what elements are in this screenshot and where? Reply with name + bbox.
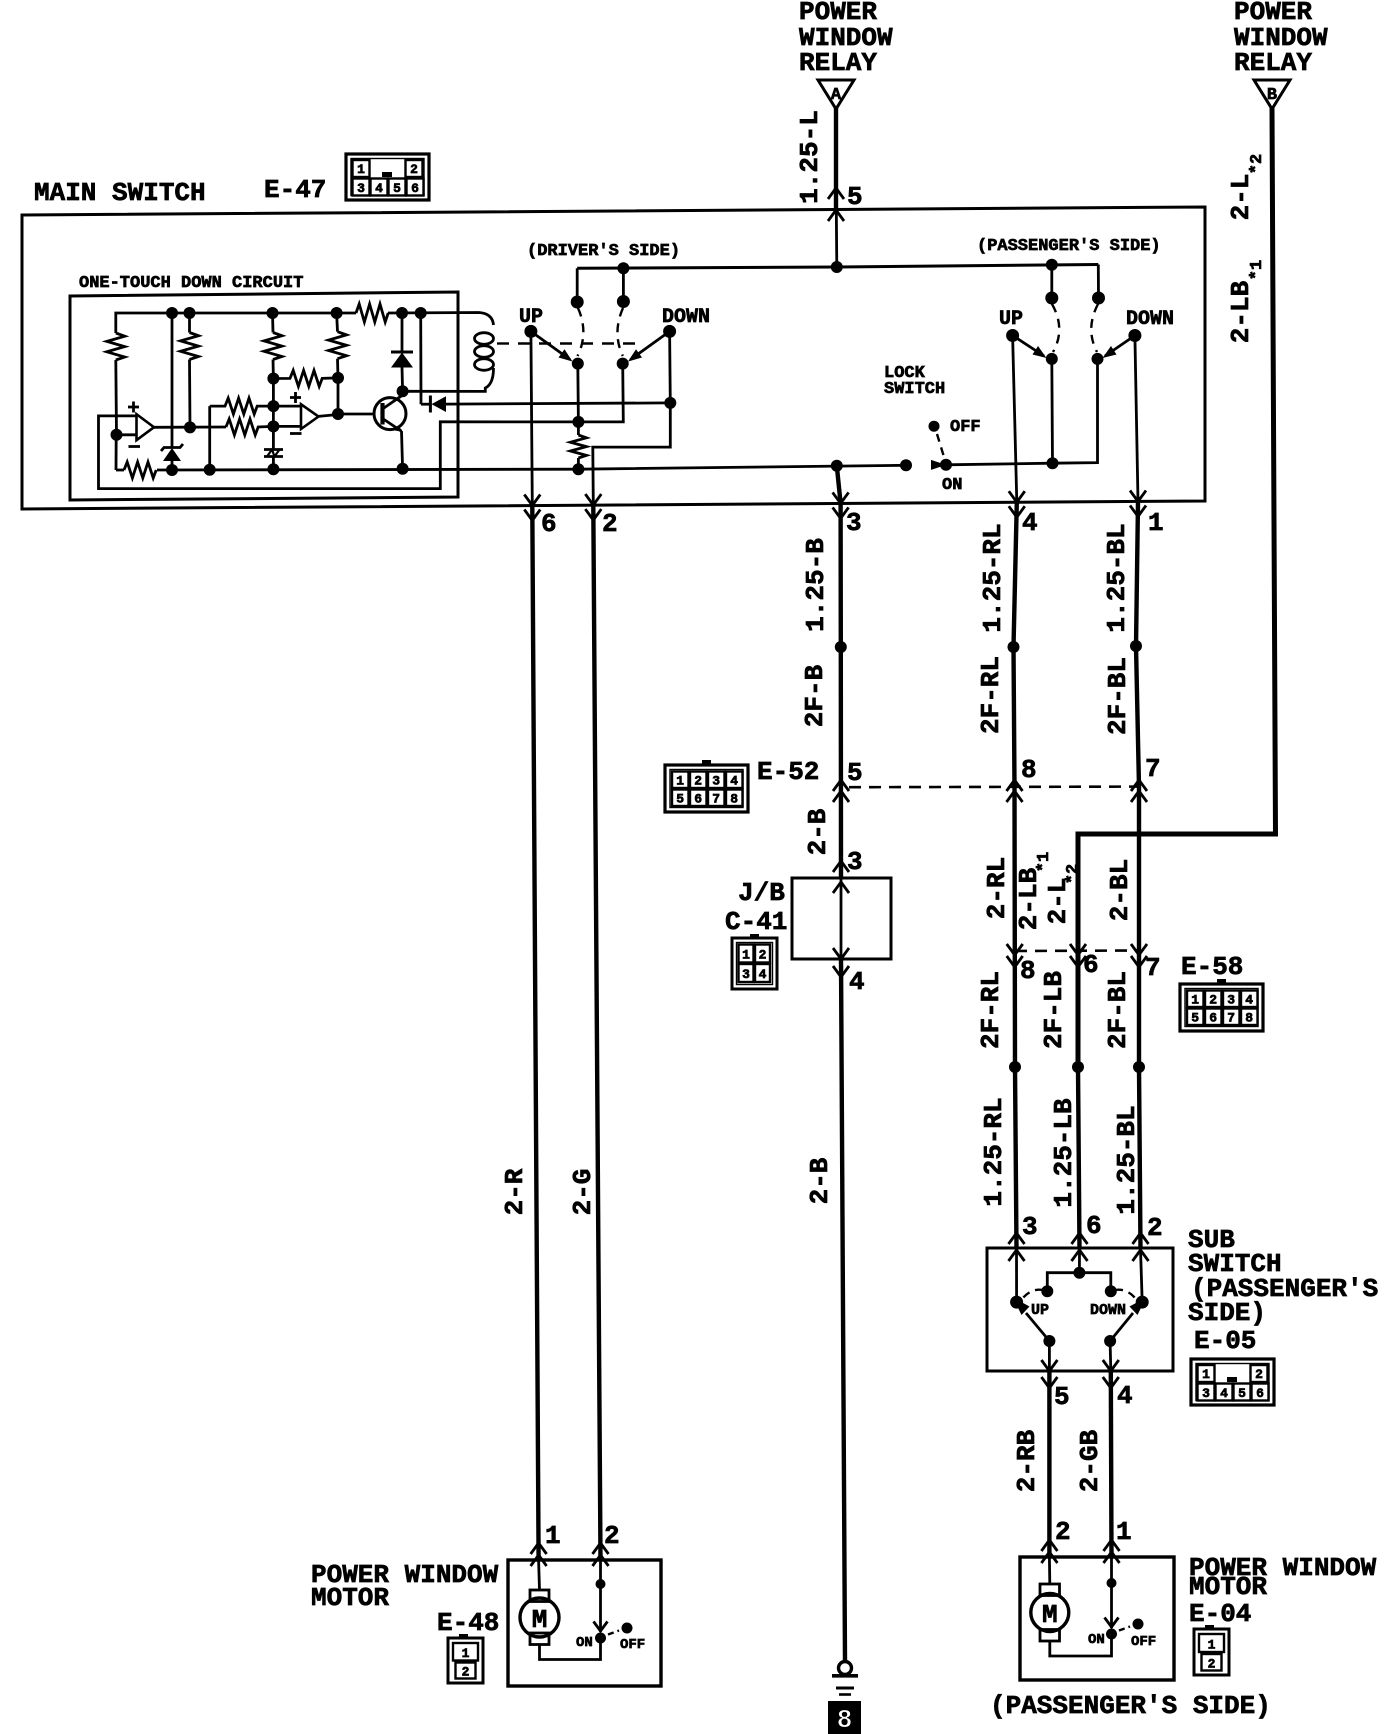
node D2 top rail xyxy=(415,307,427,319)
svg-text:E-04: E-04 xyxy=(1189,1599,1251,1629)
switch blade passenger DOWN xyxy=(1103,336,1135,359)
svg-text:1: 1 xyxy=(676,774,684,789)
resistor R9 xyxy=(124,462,156,478)
wire Q1 emitter to bottom rail xyxy=(402,431,403,469)
mechanical dashed arc driver DOWN xyxy=(617,308,623,356)
junction block J/B box xyxy=(792,878,891,959)
node breaker OFF contact (driver) xyxy=(622,1623,633,1634)
node passenger feed T xyxy=(1046,259,1058,271)
wire driver UP throw drop xyxy=(576,268,579,302)
pin 6 arrows at main switch xyxy=(524,495,540,521)
svg-text:6: 6 xyxy=(1256,1386,1264,1401)
node breaker OFF contact (passenger) xyxy=(1133,1619,1144,1630)
svg-text:2F-LB: 2F-LB xyxy=(1039,971,1069,1049)
svg-text:OFF: OFF xyxy=(950,418,981,437)
wire D2 node to pin 2 xyxy=(593,403,671,505)
svg-text:1: 1 xyxy=(462,1646,470,1661)
node driver feed xyxy=(617,262,629,274)
svg-text:2: 2 xyxy=(462,1665,470,1680)
node driver feedback junction xyxy=(572,416,584,428)
node common T xyxy=(1073,1267,1085,1279)
svg-text:3: 3 xyxy=(1202,1386,1210,1401)
svg-text:2: 2 xyxy=(694,774,702,789)
pin 1 arrows at main switch xyxy=(1130,491,1146,517)
svg-text:A: A xyxy=(831,86,842,105)
wire pin 2 to DOWN pivot xyxy=(1141,1249,1143,1302)
relay connector triangle B xyxy=(1254,80,1290,109)
svg-text:RELAY: RELAY xyxy=(799,48,877,78)
node R4 R5 junction xyxy=(332,372,344,384)
connector arrow at pin 5 xyxy=(828,188,844,199)
node lock line passenger junction xyxy=(1047,457,1059,469)
wire pin 1 from DOWN pivot xyxy=(1135,336,1138,502)
zener Z1 xyxy=(161,313,183,470)
svg-text:1: 1 xyxy=(1116,1517,1132,1547)
resistor R3 xyxy=(264,313,282,379)
pin 2 arrows at main switch xyxy=(585,494,601,520)
svg-text:C-41: C-41 xyxy=(725,907,787,937)
svg-text:2: 2 xyxy=(1055,1517,1071,1547)
node R6 leg bottom xyxy=(204,464,216,476)
svg-text:3: 3 xyxy=(847,847,863,877)
node splice 2F-B xyxy=(835,641,847,653)
wire U2 inputs xyxy=(273,406,301,426)
connector E-52 pin 5 arrows xyxy=(833,780,849,802)
svg-text:1: 1 xyxy=(742,948,750,963)
svg-text:E-47: E-47 xyxy=(264,175,326,205)
svg-text:4: 4 xyxy=(1022,508,1038,538)
svg-text:2-RB: 2-RB xyxy=(1012,1429,1042,1492)
wire 2-GB to passenger motor xyxy=(1109,1371,1114,1557)
svg-text:1: 1 xyxy=(1191,993,1199,1008)
wire pin2 to breaker top xyxy=(599,1560,602,1584)
sub switch pin 4 arrows xyxy=(1103,1360,1119,1388)
wire minus node to bottom rail xyxy=(115,435,118,470)
wire 2-B to ground xyxy=(841,959,845,1661)
wire passenger DOWN throw drop xyxy=(1097,265,1100,299)
connector icon E-05 xyxy=(1191,1359,1274,1405)
svg-text:4: 4 xyxy=(759,967,767,982)
switch blade passenger UP xyxy=(1013,336,1047,359)
wire motor bottom to breaker (passenger) xyxy=(1050,1634,1112,1656)
transistor Q1 xyxy=(374,396,406,432)
node passenger UP throw contact xyxy=(1045,292,1058,305)
svg-text:2F-B: 2F-B xyxy=(800,664,830,727)
wire pin 6 from UP pivot xyxy=(531,331,532,505)
node splice 2F-RL xyxy=(1008,641,1020,653)
svg-text:2-B: 2-B xyxy=(805,1157,835,1204)
node op-amp U1 minus input xyxy=(111,429,123,441)
breaker OFF dash (passenger) xyxy=(1119,1627,1130,1631)
wire U2 output to Q1 base xyxy=(317,415,338,417)
passenger motor pin 2 arrows xyxy=(1041,1540,1057,1563)
svg-text:1.25-RL: 1.25-RL xyxy=(978,523,1008,632)
svg-text:2: 2 xyxy=(1209,993,1217,1008)
driver motor pin 2 arrows xyxy=(593,1543,609,1566)
mechanical dashed arc passenger UP xyxy=(1052,304,1059,352)
wire R6 left leg to bottom rail xyxy=(208,406,211,470)
node passenger DOWN output contact xyxy=(1092,353,1104,365)
wire 1.25-RL down from pin 4 xyxy=(1014,502,1017,1249)
passenger motor pin 1 arrows xyxy=(1104,1540,1120,1563)
svg-text:OFF: OFF xyxy=(620,1637,645,1653)
mechanical dashed arc sub UP xyxy=(1022,1290,1043,1299)
svg-text:4: 4 xyxy=(1220,1386,1228,1401)
svg-text:2-RL: 2-RL xyxy=(982,857,1012,919)
wire 2-L/2-LB from relay B down xyxy=(1078,108,1276,1069)
svg-text:E-52: E-52 xyxy=(757,757,819,787)
connector icon E-58 xyxy=(1180,979,1263,1031)
svg-text:*2: *2 xyxy=(1064,864,1083,884)
svg-text:8: 8 xyxy=(837,1705,853,1734)
svg-text:4: 4 xyxy=(1245,993,1253,1008)
svg-text:1.25-LB: 1.25-LB xyxy=(1049,1098,1079,1208)
svg-text:2-B: 2-B xyxy=(803,808,833,855)
svg-text:6: 6 xyxy=(1086,1211,1102,1241)
svg-text:ON: ON xyxy=(576,1635,593,1651)
sub switch pin 3 arrows xyxy=(1009,1233,1025,1261)
node pin3 tap xyxy=(831,460,843,472)
node sub UP pivot xyxy=(1010,1296,1023,1309)
node R4 top rail xyxy=(331,307,343,319)
breaker OFF dash (driver) xyxy=(608,1631,619,1635)
svg-text:2: 2 xyxy=(410,162,418,177)
node R2 top rail xyxy=(184,307,196,319)
wire U1 minus input xyxy=(117,433,138,436)
svg-text:1.25-RL: 1.25-RL xyxy=(979,1097,1009,1206)
node common left contact xyxy=(1041,1285,1053,1297)
wire 1.25-LB to sub switch xyxy=(1078,1067,1080,1249)
node passenger DOWN throw contact xyxy=(1092,292,1105,305)
node lock switch left xyxy=(900,459,912,471)
wire sub DOWN output to pin 4 xyxy=(1109,1341,1113,1371)
svg-text:(PASSENGER'S SIDE): (PASSENGER'S SIDE) xyxy=(990,1691,1271,1721)
svg-text:5: 5 xyxy=(1238,1386,1246,1401)
node splice 2F-BL xyxy=(1130,640,1142,652)
wire U1 output xyxy=(153,426,226,429)
driver motor pin 1 arrows xyxy=(531,1543,547,1566)
wire 1.25-BL down from pin 1 xyxy=(1136,502,1141,1250)
svg-text:7: 7 xyxy=(1227,1011,1235,1026)
wire sub UP output to pin 5 xyxy=(1048,1341,1051,1371)
resistor R4 xyxy=(329,313,347,378)
passenger motor box xyxy=(1020,1557,1174,1680)
svg-text:2: 2 xyxy=(1147,1213,1163,1243)
mechanical dashed arc driver UP xyxy=(578,308,584,356)
wire 1.25-L from relay A xyxy=(834,108,838,209)
J/B pin 3 arrows xyxy=(833,861,849,893)
resistor R7 xyxy=(226,419,273,435)
svg-text:5: 5 xyxy=(847,758,863,788)
svg-text:2: 2 xyxy=(602,509,618,539)
wire pin1 to breaker top (passenger) xyxy=(1110,1557,1113,1583)
svg-text:6: 6 xyxy=(541,509,557,539)
connector E-58 dashed line xyxy=(1015,949,1139,952)
sub switch pin 5 arrows xyxy=(1041,1360,1057,1388)
svg-text:*1: *1 xyxy=(1248,260,1267,280)
svg-text:E-05: E-05 xyxy=(1194,1326,1256,1356)
svg-text:5: 5 xyxy=(1054,1382,1070,1412)
wire passenger UP contact to lock line xyxy=(1050,359,1053,463)
motor M2 (passenger) xyxy=(1031,1584,1069,1641)
wire pin5 to driver feed xyxy=(835,209,838,267)
node driver DOWN pivot xyxy=(663,325,676,338)
switch blade sub DOWN xyxy=(1110,1298,1146,1342)
wire R4 node to U2 output xyxy=(337,378,340,414)
node U2 plus input xyxy=(267,400,279,412)
mechanical dashed link coil to switch xyxy=(497,342,644,344)
pin 3 arrows at main switch xyxy=(833,492,849,518)
svg-text:2-BL: 2-BL xyxy=(1105,859,1135,921)
node passenger UP output contact xyxy=(1046,353,1058,365)
svg-text:7: 7 xyxy=(1145,754,1161,784)
svg-text:7: 7 xyxy=(1145,953,1161,983)
svg-text:OFF: OFF xyxy=(1131,1634,1156,1650)
svg-text:6: 6 xyxy=(1209,1011,1217,1026)
node D2 line to DOWN throw xyxy=(664,397,676,409)
svg-text:E-58: E-58 xyxy=(1181,952,1243,982)
svg-text:2-GB: 2-GB xyxy=(1075,1429,1105,1492)
circuit breaker blade (passenger) xyxy=(1105,1583,1119,1628)
wire U1 plus input feedback loop xyxy=(99,416,579,489)
svg-text:*1: *1 xyxy=(1035,852,1054,872)
svg-text:2: 2 xyxy=(604,1521,620,1551)
svg-text:ON: ON xyxy=(1088,1632,1105,1648)
sub switch pin 6 arrows xyxy=(1072,1233,1088,1261)
svg-text:2-LB: 2-LB xyxy=(1226,280,1256,343)
wire through J/B xyxy=(840,878,843,959)
coil L1 bottom return to collector node xyxy=(403,368,494,391)
svg-text:3: 3 xyxy=(357,181,365,196)
node passenger DOWN pivot xyxy=(1128,329,1141,342)
wire pin1 to motor xyxy=(537,1560,541,1590)
svg-text:5: 5 xyxy=(676,792,684,807)
svg-text:2: 2 xyxy=(759,948,767,963)
wire 1.25-B down from pin 3 xyxy=(838,503,843,878)
coil L1 loops xyxy=(475,333,494,371)
label POWER WINDOW RELAY (A) xyxy=(799,0,893,78)
node driver UP throw contact xyxy=(571,296,584,309)
svg-text:*2: *2 xyxy=(1248,154,1267,174)
svg-text:ON: ON xyxy=(942,476,962,495)
svg-text:RELAY: RELAY xyxy=(1234,48,1312,78)
svg-text:3: 3 xyxy=(1022,1212,1038,1242)
diode D1 xyxy=(391,313,413,391)
svg-text:E-48: E-48 xyxy=(437,1608,499,1638)
wire D2 anode to driver DOWN contact xyxy=(446,403,670,404)
svg-text:1: 1 xyxy=(1202,1367,1210,1382)
svg-text:5: 5 xyxy=(847,182,863,212)
svg-text:8: 8 xyxy=(1245,1011,1253,1026)
J/B pin 4 arrows xyxy=(833,948,849,977)
switch blade driver UP xyxy=(531,331,573,361)
svg-text:MAIN SWITCH: MAIN SWITCH xyxy=(34,178,206,208)
wire common bar xyxy=(1047,1273,1111,1292)
svg-text:7: 7 xyxy=(712,792,720,807)
lock switch blade arrow xyxy=(931,460,946,470)
svg-text:UP: UP xyxy=(1031,1302,1049,1319)
connector icon E-48 xyxy=(448,1634,483,1683)
node sub DOWN output xyxy=(1104,1335,1116,1347)
motor M1 (driver) xyxy=(520,1590,559,1645)
node splice 1.25-RL xyxy=(1009,1061,1021,1073)
wire R3 node to U2 plus node xyxy=(272,379,275,407)
connector icon E-47 xyxy=(346,154,429,200)
wire 2-G to driver motor xyxy=(593,505,600,1560)
node splice 1.25-LB xyxy=(1072,1061,1084,1073)
node D1 top rail xyxy=(396,307,408,319)
node R3 top rail xyxy=(267,307,279,319)
svg-text:3: 3 xyxy=(846,508,862,538)
node driver UP output contact xyxy=(572,358,584,370)
mechanical dashed arc passenger DOWN xyxy=(1091,304,1098,352)
switch blade sub UP xyxy=(1013,1298,1049,1342)
wire driver DOWN contact to feedback node xyxy=(578,364,623,422)
svg-text:M: M xyxy=(1042,1600,1058,1630)
svg-text:6: 6 xyxy=(694,792,702,807)
main switch box outline xyxy=(22,207,1205,509)
wire bottom rail xyxy=(157,465,906,470)
svg-text:1.25-L: 1.25-L xyxy=(795,110,825,204)
svg-text:3: 3 xyxy=(742,967,750,982)
resistor R5 xyxy=(273,370,338,386)
svg-text:2-G: 2-G xyxy=(568,1169,598,1216)
sub switch box xyxy=(987,1248,1173,1371)
node driver UP pivot xyxy=(524,325,537,338)
svg-text:SWITCH: SWITCH xyxy=(884,380,945,399)
resistor R1 xyxy=(107,333,125,435)
wire lock switch to passenger common xyxy=(946,359,1098,465)
wire top rail xyxy=(116,313,356,333)
node lock switch OFF contact xyxy=(929,421,940,432)
svg-text:5: 5 xyxy=(1191,1011,1199,1026)
connector arrow at pin 5 inside xyxy=(828,210,844,221)
node sub UP output xyxy=(1043,1335,1055,1347)
svg-text:4: 4 xyxy=(375,181,383,196)
node lock switch ON contact xyxy=(940,459,952,471)
node U2 minus input xyxy=(267,420,279,432)
resistor R8 xyxy=(356,304,388,322)
node sub DOWN pivot xyxy=(1136,1296,1149,1309)
svg-text:1: 1 xyxy=(1208,1638,1216,1653)
op-amp U1 xyxy=(128,402,154,447)
wire feed line from relay A node xyxy=(577,265,1098,269)
svg-text:MOTOR: MOTOR xyxy=(311,1583,389,1613)
node passenger UP pivot xyxy=(1006,329,1019,342)
svg-text:B: B xyxy=(1267,86,1277,105)
svg-text:1: 1 xyxy=(357,162,365,177)
op-amp U2 xyxy=(290,392,319,434)
connector icon E-04 xyxy=(1194,1625,1229,1675)
diode D2 xyxy=(421,313,446,413)
driver motor box xyxy=(508,1560,661,1686)
connector E-58 pin 6 arrows xyxy=(1070,944,1086,967)
svg-text:2-L: 2-L xyxy=(1226,174,1256,221)
wire pin 3 to UP pivot xyxy=(1015,1249,1018,1302)
switch blade driver DOWN xyxy=(628,331,670,361)
svg-text:8: 8 xyxy=(1021,755,1037,785)
svg-text:2: 2 xyxy=(1255,1367,1263,1382)
connector icon E-52 xyxy=(665,760,748,812)
node driver DOWN output contact xyxy=(617,358,629,370)
wire top rail right xyxy=(388,313,494,326)
svg-text:2-R: 2-R xyxy=(500,1168,530,1215)
resistor R10 xyxy=(570,422,586,469)
connector E-58 pin 8 arrows xyxy=(1007,944,1023,967)
svg-text:M: M xyxy=(532,1605,548,1635)
svg-text:1.25-BL: 1.25-BL xyxy=(1112,1105,1142,1214)
node Q1 emitter bottom xyxy=(397,463,409,475)
svg-text:3: 3 xyxy=(712,774,720,789)
node common right contact xyxy=(1105,1285,1117,1297)
pin 4 arrows at main switch xyxy=(1009,491,1025,517)
svg-text:2F-RL: 2F-RL xyxy=(976,971,1006,1049)
relay connector triangle A xyxy=(818,80,854,109)
node splice 1.25-BL xyxy=(1133,1061,1145,1073)
svg-text:6: 6 xyxy=(411,181,419,196)
label POWER WINDOW RELAY (B) xyxy=(1234,0,1328,78)
wire passenger UP throw drop xyxy=(1050,265,1053,298)
connector icon C-41 xyxy=(732,934,777,989)
node driver DOWN throw contact xyxy=(617,295,630,308)
wire Q1 collector to node xyxy=(400,391,404,396)
connector E-52 dashed line xyxy=(849,785,1139,788)
node breaker top (passenger) xyxy=(1107,1578,1117,1588)
svg-text:2F-BL: 2F-BL xyxy=(1103,971,1133,1049)
node zener Z1 top rail xyxy=(166,307,178,319)
node Q1 collector xyxy=(397,385,409,397)
svg-text:6: 6 xyxy=(1083,950,1099,980)
svg-text:2F-RL: 2F-RL xyxy=(976,656,1006,734)
one-touch circuit box xyxy=(70,292,458,500)
node breaker ON contact (passenger) xyxy=(1106,1629,1117,1640)
node relay A junction xyxy=(831,261,843,273)
node R10 bottom on rail xyxy=(572,463,584,475)
node Z1 bottom xyxy=(166,464,178,476)
svg-text:MOTOR: MOTOR xyxy=(1189,1572,1267,1602)
svg-text:4: 4 xyxy=(849,967,865,997)
svg-text:4: 4 xyxy=(1117,1381,1133,1411)
svg-text:J/B: J/B xyxy=(738,878,785,908)
svg-text:1: 1 xyxy=(545,1521,561,1551)
node R5 left xyxy=(267,373,279,385)
node Z2 bottom xyxy=(267,463,279,475)
sub switch pin 2 arrows xyxy=(1133,1233,1149,1261)
mechanical dashed arc sub DOWN xyxy=(1115,1290,1136,1299)
wire pin 4 from UP pivot xyxy=(1013,336,1017,503)
svg-text:4: 4 xyxy=(730,774,738,789)
wire motor bottom to breaker xyxy=(540,1638,601,1660)
node U2 output xyxy=(332,408,344,420)
resistor R2 xyxy=(181,313,199,427)
svg-text:DOWN: DOWN xyxy=(1090,1302,1126,1319)
svg-text:5: 5 xyxy=(393,181,401,196)
node R2 bottom on U1 output xyxy=(184,421,196,433)
wire 2-R to driver motor xyxy=(532,506,538,1561)
svg-text:(PASSENGER'S SIDE): (PASSENGER'S SIDE) xyxy=(977,237,1161,256)
svg-text:UP: UP xyxy=(999,308,1023,331)
wire U2 plus node to minus node xyxy=(272,406,275,426)
svg-text:1.25-B: 1.25-B xyxy=(801,538,831,632)
wire DOWN throw to D2 node xyxy=(668,331,672,403)
svg-text:DOWN: DOWN xyxy=(1126,308,1174,331)
wire driver DOWN throw drop xyxy=(622,268,625,301)
svg-text:SIDE): SIDE) xyxy=(1188,1298,1266,1328)
svg-text:(DRIVER'S SIDE): (DRIVER'S SIDE) xyxy=(527,242,680,261)
resistor R6 xyxy=(210,398,274,414)
connector E-52 pin 8 arrows xyxy=(1007,780,1023,802)
wire driver UP contact down xyxy=(576,364,579,422)
